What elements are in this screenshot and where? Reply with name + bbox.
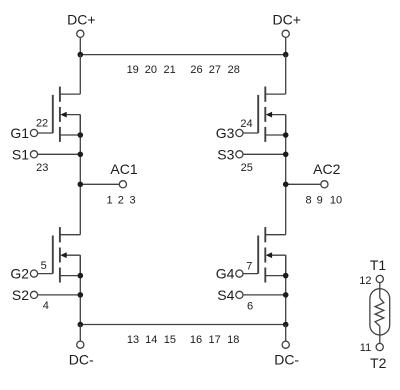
Q2 body-source vertical wire [79,255,81,275]
Q4 body-source vertical wire [285,255,287,275]
Q3 source wire [265,134,285,136]
terminal circle G3 [236,129,243,136]
svg-text:AC1: AC1 [110,161,137,177]
junction dot Q4 source sense [283,292,289,298]
svg-text:AC2: AC2 [313,161,340,177]
svg-text:15: 15 [164,334,176,346]
wire DC- right stub [285,325,287,345]
svg-text:16: 16 [190,334,202,346]
Q2 body wire with arrow [64,254,80,256]
terminal circle AC1 [119,181,126,188]
wire Q3 source to AC2 node to Q4 drain [285,115,287,235]
wire AC2 output [286,183,325,185]
svg-text:24: 24 [240,118,252,130]
Q3 drain wire [265,93,285,95]
wire Q1 source to AC1 node to Q2 drain [79,115,81,235]
terminal circle G1 [30,129,37,136]
svg-text:4: 4 [43,300,49,312]
transistor Q4 (N-MOSFET) [216,227,289,312]
svg-text:22: 22 [36,117,48,129]
Q2 gate lead wire [34,273,53,275]
svg-text:DC-: DC- [274,351,299,367]
svg-text:2: 2 [118,194,124,206]
thermistor RT1 body (capsule) [370,289,390,335]
Q1 gate bar [52,95,54,133]
svg-text:1: 1 [107,194,113,206]
wire T2 lead [379,326,381,347]
terminal circle AC2 [321,181,328,188]
Q1 body wire with arrow [64,114,80,116]
junction dot AC2 node [283,182,289,188]
wire DC+ right stub [285,34,287,55]
svg-text:7: 7 [246,261,252,273]
terminal circle DC+ right [282,30,289,37]
Q1 channel top segment [59,87,61,102]
svg-text:10: 10 [330,194,342,206]
svg-text:28: 28 [228,64,240,76]
svg-text:S1: S1 [12,146,29,162]
svg-text:13: 13 [127,334,139,346]
svg-text:27: 27 [209,64,221,76]
Q4 channel bottom segment [264,268,266,283]
svg-text:8: 8 [306,194,312,206]
junction dot AC1 node [78,182,84,188]
Q2 source wire [60,275,80,277]
junction dot DC+ bus left [78,52,84,58]
svg-text:DC+: DC+ [67,11,95,27]
wire DC+ left stub [79,34,81,55]
svg-text:21: 21 [163,64,175,76]
wire DC+ bus (top rail) [80,54,285,56]
terminal circle S1 [30,151,37,158]
Q3 gate lead wire [239,132,258,134]
wire Q2 source to DC- rail (left) [79,255,81,324]
Q3 body-source vertical wire [285,115,287,135]
svg-text:11: 11 [360,342,371,354]
Q3 body wire with arrow [270,114,286,116]
terminal circle DC- left [77,341,84,348]
junction dot Q2 source [78,273,84,279]
Q4 gate bar [257,236,259,274]
svg-text:G2: G2 [10,266,29,282]
terminal circle S3 [236,151,243,158]
junction dot DC+ bus right [283,52,289,58]
Q1 body-source vertical wire [79,115,81,135]
Q3 channel bottom segment [264,127,266,142]
Q2 drain wire [60,234,80,236]
wire DC+ rail to Q3 drain (right) [285,55,287,95]
Q1 channel bottom segment [59,127,61,142]
terminal circle G2 [30,270,37,277]
svg-text:20: 20 [145,64,157,76]
svg-text:5: 5 [41,260,47,272]
Q3 source sense wire (S3) [239,153,285,155]
svg-text:3: 3 [130,194,136,206]
transistor Q3 (N-MOSFET) [216,87,289,174]
junction dot Q3 source [283,132,289,138]
Q4 body wire with arrow [270,254,286,256]
svg-text:9: 9 [317,194,323,206]
wire DC- left stub [79,325,81,345]
terminal circle T1 (pin 12) [376,275,383,282]
transistor Q1 (N-MOSFET) [10,87,83,174]
wire Q4 source to DC- rail (right) [285,255,287,324]
Q1 drain wire [60,93,80,95]
Q4 source sense wire (S4) [239,294,285,296]
junction dot Q2 source sense [78,292,84,298]
Q1 source wire [60,134,80,136]
svg-text:G1: G1 [10,125,29,141]
junction dot Q3 source sense [283,152,289,158]
svg-text:DC-: DC- [69,351,94,367]
terminal circle S2 [30,291,37,298]
svg-text:S2: S2 [12,287,29,303]
svg-text:19: 19 [127,64,139,76]
svg-text:14: 14 [145,334,157,346]
svg-text:18: 18 [227,334,239,346]
svg-text:G4: G4 [216,266,235,282]
Q3 gate bar [257,95,259,133]
Q2 source sense wire (S2) [34,294,80,296]
terminal circle S4 [236,291,243,298]
svg-text:6: 6 [247,300,253,312]
junction dot Q4 source [283,273,289,279]
wire AC1 output [80,183,123,185]
svg-text:T2: T2 [370,355,387,371]
svg-text:DC+: DC+ [272,11,300,27]
thermistor RT1 resistive element (zigzag) [375,298,384,326]
wire DC+ rail to Q1 drain (left) [79,55,81,95]
Q1 channel middle segment [59,107,61,122]
junction dot Q1 source sense [78,152,84,158]
junction dot Q1 source [78,132,84,138]
Q3 channel top segment [264,87,266,102]
Q2 channel top segment [59,227,61,242]
terminal circle G4 [236,270,243,277]
Q2 gate bar [52,236,54,274]
terminal circle DC- right [282,341,289,348]
transistor Q2 (N-MOSFET) [10,227,83,312]
junction dot DC- bus right [283,322,289,328]
svg-text:S4: S4 [217,287,234,303]
wire DC- bus (bottom rail) [80,324,285,326]
svg-text:17: 17 [208,334,220,346]
svg-text:12: 12 [359,275,371,287]
wire T1 lead [379,279,381,298]
svg-text:25: 25 [241,162,253,174]
Q1 gate lead wire [34,132,53,134]
Q3 channel middle segment [264,107,266,122]
svg-text:26: 26 [190,64,202,76]
svg-text:S3: S3 [217,146,234,162]
Q4 source wire [265,275,285,277]
Q2 channel bottom segment [59,268,61,283]
Q4 drain wire [265,234,285,236]
terminal circle T2 (pin 11) [376,343,383,350]
Q4 gate lead wire [239,273,258,275]
svg-text:23: 23 [36,162,48,174]
Q4 channel middle segment [264,248,266,263]
svg-text:G3: G3 [216,125,235,141]
svg-text:T1: T1 [370,257,387,273]
Q4 channel top segment [264,227,266,242]
junction dot DC- bus left [78,322,84,328]
terminal circle DC+ left [77,30,84,37]
Q2 channel middle segment [59,248,61,263]
Q1 source sense wire (S1) [34,153,80,155]
